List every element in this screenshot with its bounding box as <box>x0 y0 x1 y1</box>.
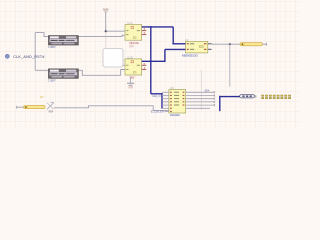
wire VCC drop <box>105 13 107 32</box>
gate U1A <box>125 25 142 41</box>
U5 left pin stubs <box>162 92 169 111</box>
port CLK circle <box>5 54 9 58</box>
svg-text:U5: U5 <box>170 86 174 90</box>
svg-text:C 0807: C 0807 <box>48 45 56 49</box>
wire Y2 right to U1B pin2 <box>78 70 125 76</box>
power port VCC flag <box>103 9 109 14</box>
junction on R1 net <box>229 43 231 45</box>
bus wire H2 <box>172 43 185 45</box>
svg-text:CLK_O: CLK_O <box>152 95 160 98</box>
bus wire H5 <box>151 93 162 95</box>
wire net to U1A pin1 <box>106 30 125 32</box>
svg-text:0R: 0R <box>40 95 44 99</box>
pin end tick R2 <box>16 106 18 109</box>
bus wire V2 <box>172 27 174 44</box>
svg-text:C 0807: C 0807 <box>48 79 56 83</box>
bus wire V1 <box>150 26 152 94</box>
ground below U1B <box>127 77 134 89</box>
wire Z-jog to Y1 left pin <box>35 33 48 37</box>
pin stub U1B out1 <box>142 64 147 66</box>
wire U2 to R1 <box>212 43 240 45</box>
ferrite bead FB1 <box>240 95 255 98</box>
svg-text:U2: U2 <box>185 38 189 42</box>
wire vertical net left <box>34 33 36 71</box>
wire X to U5 <box>54 106 169 111</box>
bus wire V5 along U5 pins <box>161 93 163 109</box>
pin end tick R1 <box>265 43 267 46</box>
bus wire H4 <box>165 48 186 50</box>
wire Y1 right to U1A pin2 <box>78 35 125 36</box>
bus wire V3 <box>164 49 166 62</box>
U5 right pin wires <box>186 92 215 108</box>
svg-text:U1B: U1B <box>127 55 132 59</box>
svg-text:E_CLK_EN: E_CLK_EN <box>151 110 164 113</box>
resistor R1 <box>240 43 263 46</box>
wire hanging vertical <box>229 44 231 86</box>
white callout box <box>103 48 123 67</box>
pink mark below U1A <box>129 45 133 48</box>
junction at VCC/U1A <box>105 30 107 32</box>
resistor R2 bottom left <box>24 105 46 108</box>
svg-text:24AA02: 24AA02 <box>170 113 180 117</box>
wire R2 left stub <box>17 106 24 108</box>
crystal Y2 (selected) <box>49 69 79 78</box>
bus wire H1 <box>142 26 174 28</box>
pin stub U2 out1 dark <box>208 43 212 45</box>
pin end tick FB1 <box>255 95 257 97</box>
svg-text:U1A: U1A <box>127 21 132 25</box>
buffer U2 <box>186 41 208 53</box>
bus wire V4 <box>219 96 221 111</box>
svg-text:NB3N551DG: NB3N551DG <box>182 54 199 58</box>
connector pad row J1 second <box>262 97 291 98</box>
grid major line x=106 <box>105 24 107 50</box>
sheet background <box>0 0 300 129</box>
pin stub U1B out2 <box>142 68 147 70</box>
wire R1 right stub <box>263 43 267 45</box>
svg-text:CLK_AND_RST#: CLK_AND_RST# <box>13 55 45 59</box>
svg-text:SDA: SDA <box>205 90 210 93</box>
pin stub U1A out1 <box>142 30 147 32</box>
svg-text:R54: R54 <box>49 111 54 114</box>
wire stub U1B pin1 <box>122 64 125 66</box>
pin end ticks right of U5 <box>213 91 215 106</box>
svg-text:74LVC1G: 74LVC1G <box>129 42 139 45</box>
pin stub U2 out2 dark <box>208 48 212 50</box>
bus wire H6 <box>220 96 240 98</box>
wire to Y2 left pin <box>35 69 48 71</box>
crystal Y1 (selected) <box>49 36 79 45</box>
no-ERC cross X <box>47 102 54 109</box>
gate U1B <box>125 59 142 75</box>
grid major line x=201 <box>200 70 202 110</box>
eeprom U5 <box>169 90 186 114</box>
pin stub U1A out2 <box>142 34 147 36</box>
bus wire H3 <box>142 60 165 62</box>
connector pad row J1 <box>262 95 291 96</box>
